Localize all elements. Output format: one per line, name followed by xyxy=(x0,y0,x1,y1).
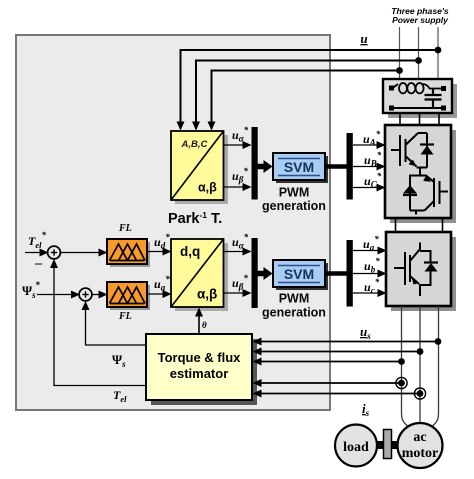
wire: filter to inverter1 stubs xyxy=(400,113,439,125)
wire u_alpha* out of Park1 xyxy=(224,144,251,146)
torque and flux estimator block xyxy=(146,334,257,405)
FL block 1 xyxy=(107,239,150,267)
rectifier-inverter box 1 xyxy=(385,125,456,223)
junction dot B xyxy=(415,57,422,64)
wire junction1 to FL1 xyxy=(60,252,106,254)
svg-text:Power supply: Power supply xyxy=(392,15,449,25)
wire: u feedback phase B to Park1 xyxy=(196,61,419,130)
wire: inverter2 to motor phase a xyxy=(402,306,410,428)
inverter1 IGBT Q2 xyxy=(425,178,449,211)
FL block 2 xyxy=(107,282,150,310)
svg-text:load: load xyxy=(343,440,369,455)
summing junction 1 xyxy=(48,246,61,259)
thick wire SVM2 to bar4 xyxy=(325,271,347,276)
bold arrow into SVM1 xyxy=(258,160,273,173)
wire theta estimator to Park2 xyxy=(198,309,200,334)
svg-text:–: – xyxy=(34,256,43,271)
svg-text:α,β: α,β xyxy=(198,181,217,195)
inverter1 IGBT Q1 emitter arrow xyxy=(409,160,417,167)
wire u_B* to inverter1 xyxy=(353,166,384,168)
svg-text:Torque & flux: Torque & flux xyxy=(158,350,242,365)
filter terminals xyxy=(389,86,446,111)
coupling xyxy=(384,430,392,459)
junction dot C xyxy=(435,47,442,54)
thick wire SVM1 to bar3 xyxy=(325,164,347,169)
FL2 membership triangles xyxy=(110,287,146,304)
svg-text:α,β: α,β xyxy=(197,287,217,302)
svg-text:FL: FL xyxy=(118,311,132,322)
wire us sense C xyxy=(254,341,438,343)
inverter1 lower arrow xyxy=(423,175,431,181)
wire u_a* to inverter2 xyxy=(353,250,385,252)
ac motor circle xyxy=(398,423,443,468)
svg-text:A,B,C: A,B,C xyxy=(181,139,208,150)
wire: u feedback phase C to Park1 xyxy=(181,50,439,129)
junction dot us B xyxy=(417,348,424,355)
svg-text:generation: generation xyxy=(262,306,326,320)
wire us sense A xyxy=(254,361,402,363)
current sensor a xyxy=(396,377,407,388)
SVM block 2 xyxy=(273,260,328,290)
wire: u feedback phase A to Park1 xyxy=(212,71,400,130)
wire u_c* to inverter2 xyxy=(353,292,385,294)
svg-text:estimator: estimator xyxy=(170,366,229,381)
wire input Psi_s* xyxy=(37,294,79,296)
input filter box xyxy=(383,79,457,118)
wire: three-phase supply line 3 xyxy=(437,27,439,79)
inverter1 bottom rail xyxy=(410,211,425,215)
svg-text:ac: ac xyxy=(413,430,426,445)
wire u_beta* out of Park1 xyxy=(224,186,251,188)
control panel background xyxy=(16,35,330,410)
junction dot A xyxy=(396,67,403,74)
wire Psi_s feedback xyxy=(86,303,147,346)
svg-text:motor: motor xyxy=(402,446,439,461)
SVM block 1 xyxy=(273,153,328,183)
wire: three-phase supply line 1 xyxy=(399,27,401,79)
wire junction2 to FL2 xyxy=(92,294,106,296)
wire: DC link left xyxy=(395,218,397,232)
wire us sense B xyxy=(254,351,420,353)
wire u_A* to inverter1 xyxy=(353,144,384,146)
bold arrow into SVM2 xyxy=(258,267,273,280)
summation bar 4 xyxy=(347,240,353,307)
inverter1 diode D1 xyxy=(420,133,434,168)
FL1 membership triangles xyxy=(110,244,146,261)
inverter2 IGBT xyxy=(394,243,420,286)
svg-text:u: u xyxy=(360,31,367,46)
inverter1 diode D2 xyxy=(403,185,417,195)
filter bottom rail xyxy=(391,107,444,109)
wire FL1 to Park2 xyxy=(147,251,170,253)
wire FL2 to Park2 xyxy=(147,293,170,295)
svg-text:Park-1 T.: Park-1 T. xyxy=(168,210,222,227)
svg-text:PWM: PWM xyxy=(279,186,310,200)
filter inductor L xyxy=(392,83,443,93)
inverter2 IGBT emitter arrow xyxy=(412,277,419,285)
Park transform block 2 (d,q to alpha,beta) xyxy=(171,239,228,311)
wire: inverter2 to motor phase c xyxy=(431,306,439,428)
svg-text:FL: FL xyxy=(118,223,132,234)
junction dot us C xyxy=(435,338,442,345)
summing junction 2 xyxy=(79,288,92,301)
load circle xyxy=(335,425,377,467)
svg-text:SVM: SVM xyxy=(284,266,314,282)
filter capacitor C xyxy=(425,89,442,109)
wire: DC link right xyxy=(442,218,444,232)
inverter1 mid node wire xyxy=(410,168,434,211)
wire input T_el* xyxy=(25,252,47,254)
wire u_alpha* out of Park2 xyxy=(224,251,251,253)
svg-text:SVM: SVM xyxy=(284,159,314,175)
wire is sense b xyxy=(254,393,420,395)
Park inverse transform block 1 xyxy=(171,131,228,204)
wire u_beta* out of Park2 xyxy=(224,292,251,294)
current sensor b xyxy=(414,388,425,399)
wire u_b* to inverter2 xyxy=(353,273,385,275)
inverter box 2 xyxy=(386,232,456,311)
shaft xyxy=(377,441,399,449)
inverter1 IGBT Q1 xyxy=(391,133,427,167)
wire is sense a xyxy=(254,382,402,384)
wire T_el feedback xyxy=(54,261,146,386)
svg-text:d,q: d,q xyxy=(180,244,200,259)
wire u_C* to inverter1 xyxy=(353,187,384,189)
svg-text:PWM: PWM xyxy=(279,292,310,306)
wire: three-phase supply line 2 xyxy=(418,27,420,79)
svg-text:θ: θ xyxy=(202,320,207,330)
svg-text:generation: generation xyxy=(262,199,326,213)
summation bar 2 xyxy=(252,238,258,308)
wire: inverter2 to motor phase b xyxy=(419,306,421,424)
inverter2 diode xyxy=(420,251,438,296)
junction dot us A xyxy=(398,358,405,365)
summation bar 1 xyxy=(252,127,258,200)
summation bar 3 xyxy=(347,133,353,200)
